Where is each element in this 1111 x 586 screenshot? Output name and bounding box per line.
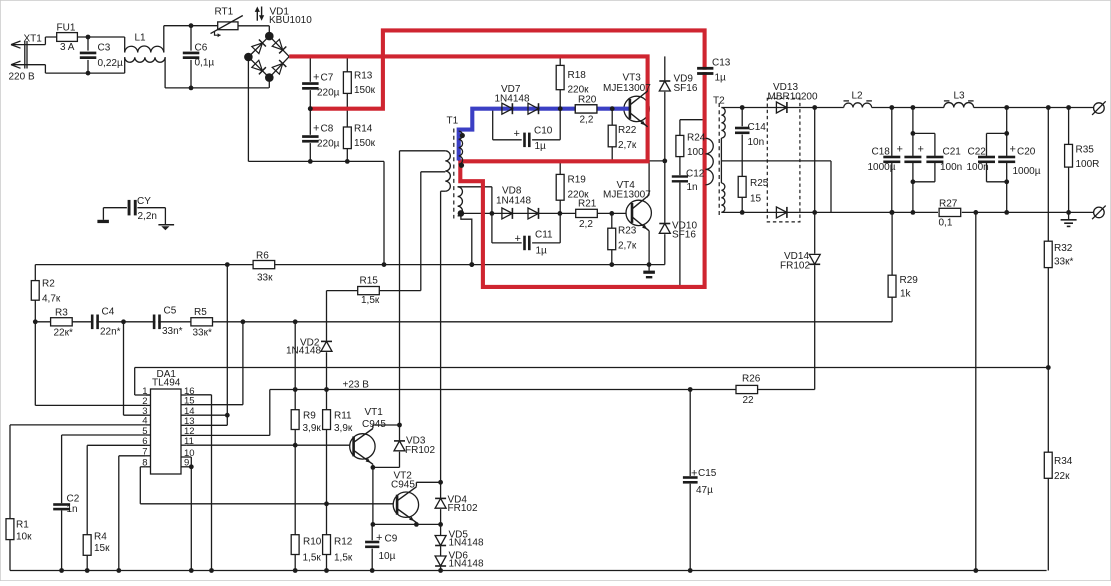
svg-text:VT1: VT1 [365, 407, 384, 418]
svg-text:R24: R24 [687, 133, 706, 144]
svg-text:0,22µ: 0,22µ [98, 58, 123, 69]
svg-text:MJE13007: MJE13007 [603, 190, 651, 201]
svg-text:10к: 10к [16, 532, 32, 543]
svg-text:R19: R19 [568, 175, 587, 186]
svg-text:C8: C8 [321, 124, 334, 135]
svg-text:1,5к: 1,5к [334, 553, 353, 564]
svg-text:2,2: 2,2 [579, 219, 593, 230]
svg-text:2,7к: 2,7к [618, 241, 637, 252]
svg-text:15: 15 [184, 396, 195, 407]
svg-text:1µ: 1µ [536, 246, 548, 257]
svg-text:C14: C14 [748, 122, 767, 133]
svg-text:10n: 10n [748, 137, 765, 148]
svg-text:C6: C6 [195, 43, 208, 54]
svg-text:C11: C11 [535, 230, 553, 241]
svg-text:R12: R12 [334, 537, 353, 548]
svg-text:1N4148: 1N4148 [496, 196, 531, 207]
svg-text:1: 1 [142, 386, 147, 397]
svg-text:47µ: 47µ [696, 485, 713, 496]
svg-text:3,9к: 3,9к [303, 423, 322, 434]
svg-text:220µ: 220µ [317, 139, 340, 150]
svg-text:MJE13007: MJE13007 [603, 83, 651, 94]
svg-text:22n*: 22n* [100, 327, 121, 338]
svg-text:100n: 100n [967, 162, 989, 173]
svg-text:+: + [313, 72, 319, 84]
svg-text:C9: C9 [385, 534, 398, 545]
svg-text:0,1µ: 0,1µ [195, 58, 215, 69]
svg-text:R10: R10 [303, 537, 322, 548]
svg-text:L3: L3 [954, 91, 966, 102]
svg-text:1n: 1n [67, 504, 78, 515]
svg-text:C3: C3 [98, 43, 111, 54]
svg-text:TL494: TL494 [152, 378, 181, 389]
svg-text:1,5к: 1,5к [361, 295, 380, 306]
svg-text:R5: R5 [194, 307, 207, 318]
svg-text:R35: R35 [1076, 145, 1095, 156]
svg-text:1000µ: 1000µ [1013, 166, 1041, 177]
svg-text:C2: C2 [67, 494, 80, 505]
svg-text:R32: R32 [1054, 243, 1073, 254]
svg-text:33к*: 33к* [193, 328, 212, 339]
svg-text:2,2n: 2,2n [138, 211, 157, 222]
svg-text:2,7к: 2,7к [618, 140, 637, 151]
svg-text:11: 11 [184, 436, 194, 447]
svg-text:SF16: SF16 [674, 83, 698, 94]
svg-text:C945: C945 [362, 419, 386, 430]
svg-text:XT1: XT1 [24, 34, 43, 45]
svg-text:MBR10200: MBR10200 [768, 92, 818, 103]
svg-text:150к: 150к [354, 85, 376, 96]
svg-text:1000µ: 1000µ [868, 162, 896, 173]
svg-text:100n: 100n [940, 162, 962, 173]
svg-text:CY: CY [137, 196, 151, 207]
svg-text:R9: R9 [303, 411, 316, 422]
svg-text:15: 15 [750, 194, 762, 205]
svg-text:T1: T1 [447, 116, 459, 127]
svg-text:1,5к: 1,5к [303, 553, 322, 564]
svg-text:R11: R11 [334, 411, 352, 422]
svg-text:VT3: VT3 [623, 73, 642, 84]
svg-text:2,2: 2,2 [580, 115, 594, 126]
svg-text:6: 6 [142, 436, 147, 447]
svg-text:33к*: 33к* [1054, 257, 1073, 268]
svg-text:FR102: FR102 [780, 261, 810, 272]
svg-text:C12: C12 [686, 169, 705, 180]
svg-text:1N4148: 1N4148 [449, 538, 484, 549]
svg-text:SF16: SF16 [672, 230, 696, 241]
svg-text:R6: R6 [256, 251, 269, 262]
svg-text:T2: T2 [713, 96, 725, 107]
svg-text:C18: C18 [872, 147, 891, 158]
svg-text:100: 100 [687, 147, 704, 158]
svg-text:+: + [376, 532, 382, 544]
svg-text:+: + [1010, 144, 1016, 156]
svg-text:L1: L1 [135, 33, 147, 44]
svg-text:4,7к: 4,7к [42, 294, 61, 305]
svg-text:C13: C13 [712, 58, 731, 69]
svg-text:R18: R18 [568, 70, 587, 81]
svg-text:1n: 1n [687, 182, 698, 193]
svg-text:10µ: 10µ [379, 551, 396, 562]
svg-text:R4: R4 [94, 532, 107, 543]
svg-text:100R: 100R [1076, 159, 1100, 170]
svg-text:+: + [897, 144, 903, 156]
svg-text:+: + [918, 144, 924, 156]
svg-text:8: 8 [142, 458, 147, 469]
svg-text:1µ: 1µ [535, 141, 547, 152]
svg-text:3,9к: 3,9к [334, 423, 353, 434]
svg-text:R29: R29 [900, 275, 919, 286]
svg-text:FR102: FR102 [448, 503, 478, 514]
svg-text:0,1: 0,1 [939, 218, 953, 229]
svg-text:22: 22 [743, 395, 755, 406]
svg-text:C21: C21 [943, 147, 962, 158]
svg-text:C10: C10 [534, 126, 553, 137]
svg-text:1k: 1k [900, 289, 912, 300]
svg-text:33n*: 33n* [162, 326, 183, 337]
svg-text:R13: R13 [354, 71, 373, 82]
svg-text:220µ: 220µ [317, 88, 340, 99]
svg-text:R34: R34 [1054, 456, 1073, 467]
svg-text:KBU1010: KBU1010 [269, 15, 312, 26]
svg-text:9: 9 [184, 458, 189, 469]
svg-text:C20: C20 [1017, 147, 1036, 158]
svg-text:1N4148: 1N4148 [286, 346, 321, 357]
svg-text:+: + [514, 128, 520, 140]
svg-text:R22: R22 [618, 125, 637, 136]
svg-text:220 В: 220 В [9, 72, 35, 83]
svg-text:C5: C5 [164, 306, 177, 317]
svg-text:C945: C945 [391, 480, 415, 491]
svg-text:R3: R3 [55, 308, 68, 319]
svg-text:+23 В: +23 В [343, 380, 370, 391]
svg-text:C22: C22 [968, 147, 987, 158]
svg-text:+: + [515, 233, 521, 245]
svg-text:+: + [691, 468, 697, 480]
svg-text:7: 7 [142, 447, 147, 458]
svg-text:22к*: 22к* [54, 328, 73, 339]
svg-text:150к: 150к [354, 138, 376, 149]
svg-text:R15: R15 [360, 276, 379, 287]
svg-text:1N4148: 1N4148 [495, 94, 530, 105]
svg-text:22к: 22к [1054, 471, 1070, 482]
svg-text:FR102: FR102 [405, 445, 435, 456]
svg-text:R1: R1 [16, 520, 29, 531]
svg-text:RT1: RT1 [215, 7, 234, 18]
svg-text:R14: R14 [354, 124, 373, 135]
svg-text:R21: R21 [578, 199, 597, 210]
svg-text:L2: L2 [852, 91, 864, 102]
svg-text:R2: R2 [42, 279, 55, 290]
svg-text:1N4148: 1N4148 [449, 559, 484, 570]
svg-text:C15: C15 [698, 468, 717, 479]
svg-text:R23: R23 [618, 226, 637, 237]
svg-text:1µ: 1µ [715, 73, 727, 84]
svg-text:R26: R26 [742, 374, 761, 385]
svg-text:3 A: 3 A [60, 42, 75, 53]
svg-text:R25: R25 [750, 178, 769, 189]
svg-text:33к: 33к [257, 273, 273, 284]
svg-text:+: + [313, 123, 319, 135]
svg-text:R27: R27 [939, 199, 958, 210]
svg-text:15к: 15к [94, 543, 110, 554]
svg-text:C7: C7 [321, 73, 334, 84]
svg-text:FU1: FU1 [57, 23, 76, 34]
svg-text:C4: C4 [102, 307, 115, 318]
svg-text:R20: R20 [578, 95, 597, 106]
